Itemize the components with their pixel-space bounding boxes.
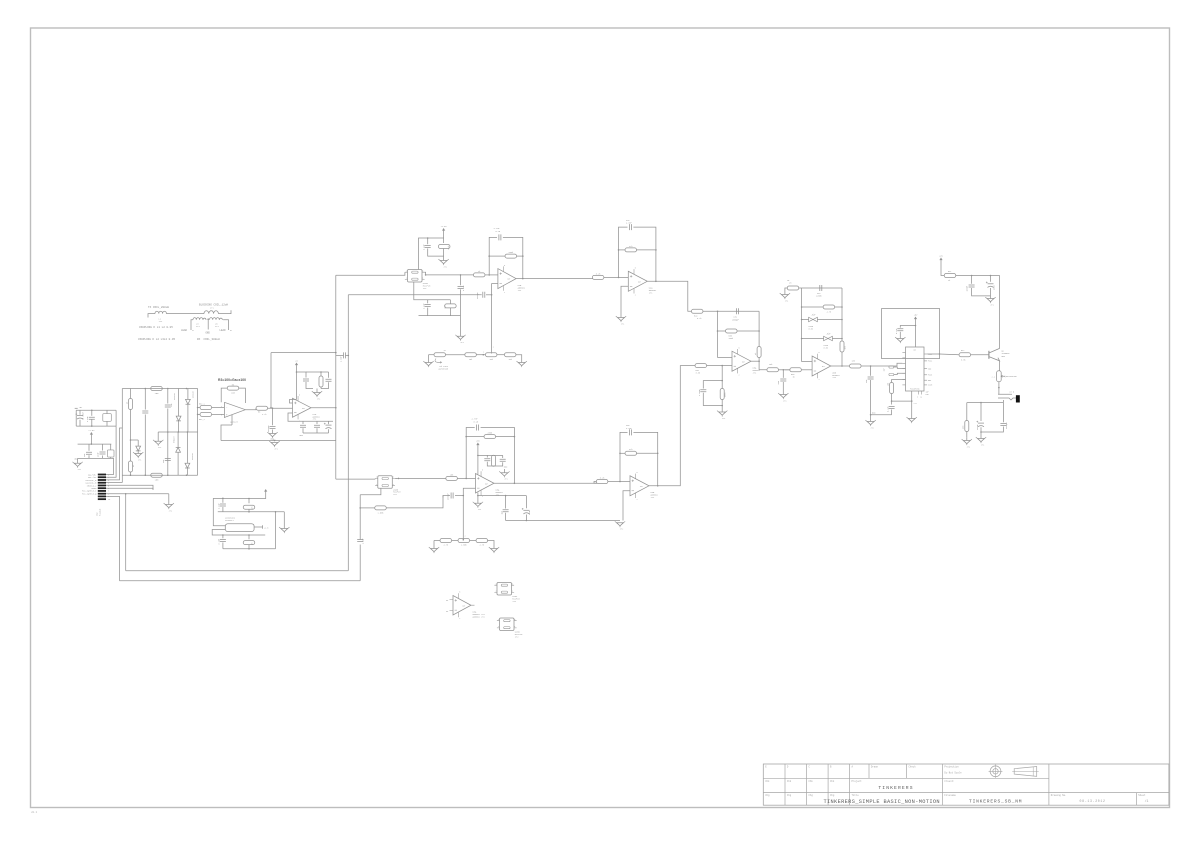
svg-text:0.1uF: 0.1uF (887, 407, 889, 412)
svg-text:6: 6 (422, 270, 423, 272)
amp input junction A (197, 407, 199, 409)
svg-text:C1 10uF: C1 10uF (82, 412, 85, 420)
R11 to opamp (485, 274, 498, 276)
cap C3 stubs (106, 410, 108, 413)
svg-text:1uF: 1uF (500, 511, 503, 514)
U3A output junction (514, 483, 516, 485)
R32 to sum inv (707, 365, 732, 367)
sum comp junction2 (721, 405, 723, 407)
svg-text:JT2: JT2 (967, 445, 970, 448)
svg-text:1N4148: 1N4148 (191, 452, 194, 460)
svg-text:OUT: OUT (822, 366, 825, 368)
capacitor C4 1uF (86, 452, 92, 454)
potentiometer RV2 volume (992, 371, 1017, 382)
bus3 to U10B pin (360, 488, 381, 494)
capacitor C19 (425, 305, 431, 307)
return rail junction (274, 440, 276, 442)
svg-text:Filename: Filename (944, 794, 956, 797)
svg-text:Drawn: Drawn (871, 766, 879, 769)
chain I cluster drop (414, 282, 419, 300)
agnd drop (870, 366, 872, 376)
capacitor C6 (142, 411, 148, 413)
U2 below caps rail (288, 413, 333, 421)
svg-text:1000pF: 1000pF (476, 292, 479, 299)
R8 to buffer (268, 407, 293, 409)
cap C1 stubs (79, 410, 81, 414)
D1 top stub (137, 440, 139, 446)
svg-text:1uF: 1uF (162, 460, 165, 463)
R17 to opamp (457, 477, 475, 479)
resistor R21 10k ladder (458, 539, 470, 543)
svg-text:1.00uF: 1.00uF (698, 389, 701, 396)
jack bottom rail (967, 402, 1004, 404)
power +9V (939, 254, 943, 261)
U2 inv input stub (290, 400, 297, 404)
svg-text:RG#_1: RG#_1 (199, 418, 206, 421)
C35 tail (870, 380, 872, 415)
power +2.5V osc (264, 489, 267, 493)
resistor R32 3.3k (695, 364, 707, 368)
pot to jack (998, 382, 1000, 395)
pic out junction (939, 353, 941, 355)
svg-text:1.0uF: 1.0uF (340, 356, 343, 362)
C13 tail (316, 428, 318, 433)
svg-text:Project: Project (852, 780, 863, 783)
cluster1 left drop (75, 410, 77, 426)
R33 tail (721, 400, 723, 413)
wire pin4 to bridge (106, 482, 122, 484)
capacitor C15 bus link (344, 352, 346, 358)
svg-text:R3=100=Ga=x100: R3=100=Ga=x100 (218, 378, 246, 382)
inductor L3 rx left half (193, 318, 206, 328)
capacitor C7b (165, 459, 171, 461)
bridge junction mid (130, 439, 132, 441)
svg-text:2: 2 (376, 484, 377, 486)
collector wire (999, 276, 1001, 349)
svg-text:2: 2 (739, 374, 740, 376)
svg-text:5: 5 (635, 268, 636, 270)
cap C5 stub (102, 444, 104, 450)
sum fb junction right (758, 330, 760, 332)
resistor R11 1k (473, 273, 485, 277)
svg-text:2: 2 (406, 278, 407, 280)
R42 to base (971, 354, 989, 356)
svg-text:2.5: 2.5 (914, 403, 917, 405)
cap C12 stub (302, 421, 304, 424)
resistor R18 200k (484, 435, 496, 439)
cluster2 feed (90, 436, 92, 444)
ladder I seg2 (446, 354, 465, 356)
svg-text:4: 4 (514, 626, 515, 628)
svg-text:100uF: 100uF (976, 424, 979, 430)
svg-text:RX COIL_300uH: RX COIL_300uH (197, 338, 220, 341)
U6 left pin stubs (902, 353, 905, 385)
clip junction e (801, 338, 803, 340)
resistor R35 1M (787, 286, 799, 290)
out rc drop c (1002, 403, 1004, 423)
resistor R20 4.7k ladder (440, 539, 452, 543)
C18 to bus2 (348, 294, 481, 296)
resistor R38 1k (790, 368, 802, 372)
svg-text:U8: U8 (446, 611, 448, 613)
osc bottom caps rail (222, 535, 224, 538)
U10B left pin wire (374, 478, 376, 481)
cap C16 stub (427, 238, 429, 244)
led row 2 wire (802, 338, 824, 340)
svg-text:OUT: OUT (638, 281, 641, 283)
clipper fb res row (802, 306, 823, 308)
rx coil center tap (207, 318, 209, 320)
svg-text:1000pF: 1000pF (267, 425, 270, 432)
ladder Q seg3 (470, 540, 476, 542)
R26 to right rail (637, 249, 656, 251)
svg-text:0.1uF: 0.1uF (423, 244, 426, 250)
wire pin7 sample I gnd run (106, 493, 169, 495)
capacitor C13 (314, 425, 320, 427)
inductor L4 blocking (204, 310, 231, 313)
bus2 vertical (347, 295, 349, 571)
Q stage out junction (657, 485, 659, 487)
pic decouple link (900, 326, 915, 328)
R39 to pic (861, 363, 902, 366)
svg-text:VDD: VDD (928, 369, 931, 371)
svg-text:1: 1 (483, 351, 484, 353)
D4 column lower (177, 452, 179, 475)
svg-text:1uF: 1uF (926, 392, 929, 394)
svg-text:N_AUTOVOLUME: N_AUTOVOLUME (1004, 375, 1017, 378)
chain I fb right rail (522, 252, 524, 279)
sum fb junction mid (717, 330, 719, 332)
svg-text:+2.5V: +2.5V (88, 429, 95, 432)
capacitor C2 0.1uF (89, 417, 95, 419)
C6 junction bottom (145, 474, 147, 476)
osc rail3 junction b (248, 534, 250, 536)
ladder I left gnd riser (428, 355, 430, 363)
ground U2 decouple (312, 391, 322, 400)
resistor R26 47k (625, 248, 637, 252)
sum fb right rail (758, 311, 760, 346)
svg-text:Drawing No.: Drawing No. (1051, 794, 1067, 797)
svg-text:TX COIL_200uH: TX COIL_200uH (148, 306, 169, 309)
op-amp U2A AD8662 (293, 394, 321, 422)
mid rail junction c (187, 431, 189, 433)
ground ladder I left (423, 361, 433, 367)
svg-text:2: 2 (493, 347, 494, 349)
ground chain I power (438, 259, 448, 268)
lead A bracket (191, 320, 193, 330)
C10 tail (306, 382, 313, 389)
svg-text:5: 5 (459, 592, 460, 594)
out rc drop b (980, 403, 982, 421)
cluster2 top rail (78, 443, 112, 445)
res R23 stub (248, 498, 250, 503)
chain I fb junction2 (488, 255, 490, 257)
cap C33 drop (782, 370, 784, 378)
osc top rail (213, 493, 266, 499)
svg-text:TINKERERS_SB_NM: TINKERERS_SB_NM (969, 798, 1022, 804)
chain Q opamp gnd drop (477, 496, 479, 504)
C30 to right rail (633, 432, 657, 447)
power +5V pic (914, 313, 918, 320)
U10B out wire (395, 477, 446, 479)
sum output wire (751, 360, 759, 362)
C27 tail (222, 507, 224, 512)
capacitor C36 0.1uF (897, 329, 903, 331)
U6 right pin stubs (924, 354, 932, 387)
U2 output junction (335, 407, 337, 409)
analog switch U10B H11F1M (375, 476, 401, 496)
sum out junction (758, 360, 760, 362)
out bottom junction (980, 431, 982, 433)
wire pin8 sample Q (106, 496, 120, 580)
X1 pin3 wire (254, 526, 262, 528)
cap C39 drop (971, 276, 973, 284)
R18 to right rail (496, 436, 515, 438)
chain I fb junction (488, 274, 490, 276)
mid rail gnd drop (157, 432, 159, 441)
R35 to rail (799, 287, 802, 289)
bus1 top link (271, 352, 336, 354)
filt rail junction (505, 495, 507, 497)
svg-text:Sheet: Sheet (1138, 794, 1146, 797)
resistor R13 (445, 304, 457, 308)
C15 junction (348, 355, 350, 357)
resistor R25 8.2k (592, 275, 604, 279)
R27 input wire (594, 482, 597, 484)
resistor R33 (720, 389, 724, 400)
svg-text:1uF: 1uF (83, 454, 86, 457)
filt bottom rail (506, 520, 620, 522)
capacitor C26 10uF (522, 508, 530, 514)
svg-text:AD8223: AD8223 (230, 420, 238, 423)
R29 to sum node (703, 310, 759, 312)
X1 pin2 wire (212, 530, 265, 536)
Q stage fb junction3 (657, 453, 659, 455)
out left gnd stub (966, 437, 968, 440)
svg-text:8.2k: 8.2k (448, 245, 450, 249)
cap C2 lower stub (91, 419, 93, 426)
rx center tap wire (207, 319, 209, 329)
ladder I seg3 (476, 354, 485, 356)
svg-text:0.1uF: 0.1uF (218, 539, 221, 545)
sum fb res rail (718, 330, 726, 332)
capacitor C14 10uF (324, 423, 332, 429)
bus1 top to chain I (336, 274, 401, 276)
R3 left leg (221, 388, 227, 402)
cap C4 stub lower (88, 455, 90, 458)
svg-text:0.1uF: 0.1uF (462, 285, 465, 291)
ladder I seg4 (497, 354, 504, 356)
resistor R1 100R (151, 387, 163, 391)
C16 tail (428, 249, 444, 257)
svg-text:6: 6 (512, 583, 513, 585)
svg-text:Q: Q (921, 397, 922, 399)
svg-text:1: 1 (498, 619, 499, 621)
projection symbol cone (1012, 767, 1038, 777)
capacitor C3 box (103, 414, 112, 422)
C39 tail (972, 288, 991, 296)
diode D5 1N4148 (185, 463, 190, 468)
capacitor C39 100uF (969, 285, 975, 287)
resistor R3 gain 100 (227, 386, 239, 390)
svg-text:7: 7 (108, 491, 109, 493)
resistor R22 4.7k ladder (476, 539, 488, 543)
resistor R41 (944, 274, 956, 278)
led row 1 wire b (817, 319, 842, 321)
bus1 vertical (335, 275, 337, 479)
R4v bottom stub (130, 472, 132, 475)
svg-text:PLUG10: PLUG10 (98, 508, 101, 516)
R31 tail (758, 358, 760, 362)
svg-text:1000pF: 1000pF (1005, 422, 1008, 429)
svg-text:Chg: Chg (809, 794, 814, 797)
capacitor C10 (303, 379, 309, 381)
svg-text:2: 2 (496, 591, 497, 593)
chain I node b (460, 274, 462, 276)
C9 gnd stub (272, 430, 274, 434)
osc rail2 junction (275, 511, 277, 513)
svg-text:COUPLING K L2 L3L4 0.95: COUPLING K L2 L3L4 0.95 (138, 338, 175, 341)
sum comp drop (721, 366, 723, 381)
resistor R17 10k (446, 476, 458, 480)
Q stage input junction (619, 481, 621, 483)
svg-text:10: 10 (108, 499, 110, 501)
C12 tail (302, 428, 304, 433)
capacitor C37 (889, 407, 895, 409)
resistor R14 10k ladder (465, 353, 477, 357)
microcontroller U6 PIC10F206 (906, 347, 925, 391)
D5 column (186, 432, 188, 463)
I stage gnd input (621, 286, 628, 317)
capacitor C35 (868, 377, 874, 379)
svg-text:2: 2 (498, 626, 499, 628)
svg-text:MMBZ27: MMBZ27 (173, 436, 176, 443)
U3A inv path (463, 488, 475, 540)
svg-text:RG#_1: RG#_1 (199, 403, 206, 406)
chain Q filt rail (478, 493, 527, 496)
R13 tail (449, 308, 451, 316)
pic in junction (870, 365, 872, 367)
connector CN2 pins (98, 474, 110, 501)
cap C6 stub top (144, 389, 146, 410)
led row 2 wire b (832, 338, 842, 340)
resistor R9v (319, 376, 323, 387)
osc right rail (275, 512, 277, 549)
I stage out junction (655, 281, 657, 283)
cluster1 top rail (76, 409, 116, 411)
sample I tee (125, 493, 127, 495)
agnd junction (870, 414, 872, 416)
U3A inv junction (463, 495, 465, 497)
ladder Q seg4 (488, 541, 494, 549)
chain Q fb res rail (466, 436, 484, 438)
ground ladder I right (517, 361, 527, 367)
svg-text:1N4148: 1N4148 (192, 390, 195, 398)
svg-text:Title: Title (852, 794, 860, 797)
D3 column (178, 389, 180, 417)
svg-text:Chk: Chk (830, 780, 835, 783)
title block grid (763, 764, 1169, 805)
svg-text:Chg: Chg (830, 794, 835, 797)
bus1 feed junction (270, 407, 272, 409)
svg-text:Chk: Chk (787, 780, 792, 783)
wire pin3 to bridge (106, 428, 122, 480)
cap C7 stub top (167, 389, 169, 404)
svg-text:OUT: OUT (302, 408, 305, 410)
svg-text:5: 5 (739, 347, 740, 349)
C40 stub (990, 276, 992, 282)
pic bottom junction (891, 400, 893, 402)
resistor R15 10k ladder (485, 353, 497, 357)
svg-text:1000pF: 1000pF (447, 493, 450, 500)
sum fb left rail (717, 311, 719, 357)
svg-text:v0.1: v0.1 (31, 811, 38, 814)
osc rail junction a (222, 498, 224, 500)
ground C33 (778, 393, 788, 402)
C26 stub (525, 496, 527, 509)
resistor R3v 1k (129, 399, 133, 410)
cap C9 drop (272, 408, 274, 425)
cap C25 stub (505, 496, 507, 509)
svg-text:JT2: JT2 (870, 426, 873, 429)
out rc drop a (966, 403, 968, 421)
analog switch U10C H11F1M spare (494, 583, 520, 603)
C22 tail (487, 462, 493, 466)
R10 tail (443, 249, 445, 261)
filt rail tee (477, 495, 479, 497)
chain Q fb junction (465, 478, 467, 480)
bus1 bottom to chain Q (336, 478, 375, 480)
svg-text:0.1uF: 0.1uF (218, 503, 221, 509)
I stage input junction (618, 277, 620, 279)
R28 to right rail (637, 452, 658, 454)
op-amp U5A AD8662 summing (732, 347, 761, 376)
inv branch junction (491, 294, 493, 296)
ground osc out (279, 527, 289, 533)
ground out left (962, 439, 972, 448)
wire pin5 shield (106, 485, 153, 489)
R30 to right rail (737, 330, 759, 332)
ladder I seg1 (429, 354, 435, 356)
svg-text:4: 4 (512, 591, 513, 593)
resistor R6 amp in B (200, 412, 212, 416)
svg-text:PIC10F206: PIC10F206 (910, 389, 919, 391)
R25 to opamp I (604, 276, 628, 278)
chain I fb junction3 (522, 255, 524, 257)
svg-text:OUT: OUT (507, 279, 510, 281)
bridge junction e (186, 474, 188, 476)
+9V drop (941, 262, 944, 276)
svg-text:10k: 10k (887, 383, 889, 386)
wire pin6 mgnd (106, 488, 153, 490)
C33 tail (782, 382, 784, 395)
chain I fb left rail (489, 237, 497, 275)
chain Q fb junction2 (465, 436, 467, 438)
buffer input junction (272, 407, 274, 409)
clipper out wire (831, 365, 850, 367)
diode D3 1N4148 (176, 416, 181, 421)
sum output jog (759, 361, 767, 370)
cluster I bottom rail (419, 315, 461, 317)
cluster2 junction a (91, 443, 93, 445)
bridge bottom rail (122, 474, 197, 476)
C40 tail (990, 288, 992, 296)
U10A left pin wire (401, 272, 405, 275)
ground pic (907, 417, 917, 423)
led row 1 wire (802, 319, 809, 321)
svg-text:AUTOTUNE: AUTOTUNE (439, 368, 449, 371)
U10A top pin wire (418, 267, 420, 270)
